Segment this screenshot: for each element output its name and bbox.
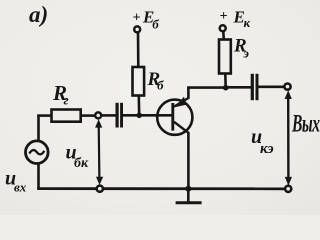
svg-text:бк: бк: [74, 156, 89, 171]
wire Ek terminal down to resistor Re: [222, 31, 225, 39]
bottom rail wire: [37, 187, 285, 190]
capacitor C1 left plate: [116, 103, 119, 128]
u_bk arrowhead down: [96, 177, 103, 185]
capacitor C2 right plate: [256, 74, 259, 100]
junction dot base node: [136, 113, 142, 119]
transistor VT1 emitter arrowhead pointing to base: [175, 97, 186, 108]
capacitor C1 right plate: [120, 103, 123, 128]
AC source circle: [26, 141, 49, 164]
capacitor C2 left plate: [251, 74, 254, 100]
svg-text:+: +: [220, 9, 228, 24]
output terminal top open circle: [284, 84, 290, 90]
wire left vertical from Rg level down to AC source top: [37, 115, 40, 142]
wire left horizontal to resistor Rg: [37, 114, 52, 117]
label Vyh output: [291, 109, 319, 138]
node A open circle terminal: [95, 112, 101, 118]
wire base junction to transistor base: [139, 114, 172, 117]
svg-text:+: +: [133, 11, 141, 26]
transistor VT1 collector lead diagonal: [174, 122, 188, 133]
resistor Rg body: [52, 110, 81, 122]
junction dot ground node: [185, 186, 191, 192]
ground symbol stem: [187, 189, 190, 202]
wire Rg to node A: [81, 114, 96, 117]
output terminal bottom open circle: [285, 186, 291, 192]
svg-text:б: б: [157, 78, 164, 93]
svg-text:б: б: [152, 17, 159, 32]
svg-text:г: г: [64, 94, 69, 109]
wire top rail from emitter corner to Re junction: [187, 86, 226, 89]
wire resistor Rb down to base junction: [138, 96, 141, 117]
u_bk arrow vertical line: [98, 124, 101, 180]
u_bk arrowhead up: [95, 119, 102, 127]
wire emitter vertical up to top rail: [187, 87, 190, 99]
transistor VT1 circle: [157, 100, 192, 135]
wire top rail junction to capacitor C2: [226, 86, 251, 89]
transistor VT1 emitter lead diagonal: [174, 98, 188, 107]
ground symbol bar: [176, 201, 202, 204]
output arrowhead up at top terminal: [285, 90, 292, 99]
wire capacitor C1 to base junction: [123, 114, 141, 117]
terminal +Eb open circle: [134, 26, 140, 32]
svg-text:к: к: [244, 15, 251, 30]
svg-text:вх: вх: [14, 180, 27, 195]
svg-text:э: э: [243, 46, 250, 61]
terminal +Ek open circle: [220, 25, 226, 31]
bottom node open circle under node A: [97, 186, 103, 192]
resistor Re body: [219, 40, 231, 74]
svg-text:кэ: кэ: [260, 141, 274, 157]
svg-text:Вых: Вых: [291, 109, 319, 138]
wire AC source bottom to bottom rail: [37, 164, 40, 190]
wire Eb terminal down to resistor Rb: [137, 32, 140, 67]
resistor Rb body: [133, 67, 145, 96]
wire node A to capacitor C1: [101, 114, 116, 117]
transistor VT1 base bar: [171, 103, 174, 131]
output arrow vertical line: [287, 95, 290, 180]
AC source sine symbol: [29, 150, 44, 154]
junction dot under Re: [223, 85, 229, 91]
svg-text:а): а): [29, 2, 48, 27]
output arrowhead down at bottom terminal: [285, 177, 292, 186]
wire capacitor C2 to output terminal: [258, 86, 284, 89]
wire resistor Re down to top rail junction: [224, 74, 227, 89]
wire collector vertical down to bottom rail: [187, 132, 190, 190]
